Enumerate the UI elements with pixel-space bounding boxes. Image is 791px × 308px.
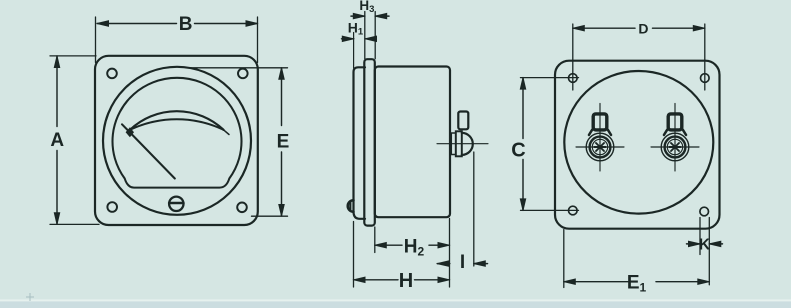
svg-text:I: I bbox=[460, 252, 465, 273]
dimension H3 extension lines bbox=[365, 12, 375, 59]
bezel front extension line top bbox=[353, 33, 355, 69]
terminal star slot bbox=[594, 143, 606, 151]
lug flare right bbox=[608, 130, 611, 135]
front screw hole top-left bbox=[107, 69, 117, 79]
front plate bbox=[95, 56, 258, 225]
terminal crosshair horizontal bbox=[651, 146, 699, 148]
front screw hole top-right bbox=[238, 69, 248, 79]
terminal centerline bbox=[437, 143, 488, 145]
scale band upper arc bbox=[130, 111, 224, 130]
terminal outer circle bbox=[661, 133, 689, 161]
needle bbox=[122, 124, 175, 178]
dimension K extension lines bbox=[700, 218, 709, 285]
svg-text:B: B bbox=[179, 14, 193, 35]
terminal inner ring bbox=[592, 139, 607, 154]
terminal crosshair vertical bbox=[599, 104, 601, 172]
terminal outer circle bbox=[586, 133, 614, 161]
side zero adjust screw bump bbox=[348, 200, 354, 212]
svg-text:A: A bbox=[50, 130, 64, 151]
terminal star slot bbox=[669, 143, 681, 151]
dimension D extension lines bbox=[573, 24, 705, 90]
terminal boss bbox=[451, 133, 456, 155]
front screw hole bottom-left bbox=[107, 202, 117, 212]
terminal knurled ring bbox=[665, 137, 686, 158]
rear body circle bbox=[564, 71, 713, 214]
dimension B line bbox=[97, 23, 258, 25]
rear hole top-left bbox=[569, 74, 578, 83]
terminal dome nut bbox=[462, 133, 473, 155]
dimension A line bbox=[56, 56, 58, 127]
lug flare right bbox=[683, 130, 686, 135]
dimension D line bbox=[573, 27, 705, 29]
terminal washer plate bbox=[456, 131, 462, 156]
scale band lower arc bbox=[130, 119, 224, 130]
dimension B extension lines bbox=[96, 17, 258, 63]
terminal crosshair vertical bbox=[674, 104, 676, 172]
scale end tick right bbox=[224, 130, 230, 135]
needle counterweight diamond bbox=[126, 127, 134, 137]
body right extension line bbox=[449, 219, 451, 288]
rear hole bottom-left bbox=[569, 206, 578, 215]
dimension E line bbox=[281, 68, 283, 126]
terminal knurled ring bbox=[590, 137, 611, 158]
terminal lug bbox=[668, 114, 682, 130]
terminal crosshair horizontal bbox=[576, 146, 624, 148]
registration mark bbox=[26, 293, 34, 301]
front screw hole bottom-right bbox=[237, 203, 247, 213]
dimension C line bbox=[522, 78, 524, 211]
zero adjust screw bbox=[169, 197, 183, 211]
terminal tip extension line bbox=[473, 152, 475, 266]
bottom page edge strip bbox=[0, 301, 791, 308]
right terminal bbox=[651, 104, 699, 172]
dimension K arrows bbox=[687, 243, 723, 245]
dimension E1 line bbox=[564, 281, 710, 283]
bottom light line bbox=[0, 299, 791, 301]
svg-text:E: E bbox=[277, 132, 290, 153]
dimension H1 arrows bbox=[342, 38, 374, 40]
bezel front extension line bottom bbox=[353, 222, 355, 288]
mounting flange edge-on bbox=[364, 59, 375, 225]
dimension H2 extension line bbox=[374, 227, 376, 253]
dimension C extension lines bbox=[521, 78, 579, 211]
bezel outer circle bbox=[103, 67, 251, 215]
dimension H3 arrows bbox=[351, 15, 389, 17]
rear hole top-right bbox=[701, 74, 710, 83]
lug flare left bbox=[589, 130, 592, 135]
rear hole bottom-right bbox=[700, 207, 709, 216]
svg-text:C: C bbox=[511, 140, 525, 162]
dimension I arrows bbox=[437, 263, 487, 265]
side zero adjust slot bbox=[349, 201, 351, 210]
dimension H2 line bbox=[375, 244, 450, 246]
meter window (inner circle with flat bottom) bbox=[112, 78, 241, 188]
rear plate bbox=[555, 61, 720, 229]
terminal lug side bbox=[458, 112, 468, 130]
dimension E1 extension line bbox=[563, 230, 565, 288]
left terminal bbox=[576, 104, 624, 172]
dimension A extension lines bbox=[50, 56, 99, 225]
svg-text:K: K bbox=[699, 237, 711, 254]
meter body bbox=[375, 67, 450, 218]
lug flare left bbox=[664, 130, 667, 135]
bezel outline bbox=[354, 67, 366, 219]
zero adjust screw slot bbox=[169, 202, 183, 205]
terminal lug bbox=[593, 114, 607, 130]
terminal inner ring bbox=[667, 139, 682, 154]
svg-text:D: D bbox=[638, 20, 648, 36]
dimension E extension lines bbox=[189, 68, 288, 216]
dimension H line bbox=[354, 279, 450, 281]
svg-text:H: H bbox=[399, 270, 413, 292]
